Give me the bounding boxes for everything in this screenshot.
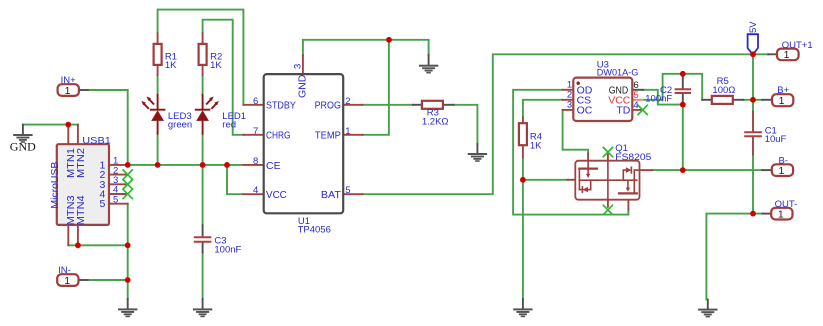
svg-text:USB1: USB1	[82, 136, 111, 147]
ground (bottom right, OUT- net)	[698, 300, 717, 318]
svg-text:1: 1	[779, 95, 785, 107]
wire C1 bottom crossing B- to OUT-	[752, 155, 754, 214]
junction C2 net / B- rail	[680, 167, 686, 173]
transistor Q1 FS8205	[568, 143, 652, 209]
wire 5V net row to CE pin	[128, 164, 244, 166]
wire R3 right to ground	[454, 105, 478, 144]
ground (bottom, USB column)	[118, 299, 137, 317]
junction MTN1/GND	[65, 122, 71, 128]
wire U3 GND pin to C2 bottom	[643, 90, 683, 105]
connector OUT-	[762, 199, 797, 221]
wire IN- row	[88, 279, 128, 281]
resistor R2	[199, 33, 223, 75]
resistor R1	[154, 33, 178, 75]
ground (right of R3)	[468, 144, 487, 162]
no-connect X on U3 TD pin	[638, 105, 647, 114]
wire U1 GND pin to top ground	[303, 40, 429, 55]
wire C3 bottom to ground	[202, 252, 204, 299]
svg-text:VCC: VCC	[266, 189, 287, 201]
resistor R3	[413, 101, 454, 128]
svg-text:2: 2	[345, 96, 350, 107]
svg-text:MTN2: MTN2	[75, 148, 87, 178]
IC U3 DW01A-G	[563, 60, 643, 121]
svg-text:1: 1	[784, 49, 790, 61]
wire LED1 cathode to 5V row	[202, 135, 204, 165]
svg-text:GND: GND	[297, 74, 309, 98]
junction OUT+ / 5V flag	[750, 51, 756, 57]
svg-text:FS8205: FS8205	[615, 152, 651, 163]
svg-text:5V: 5V	[748, 21, 759, 33]
svg-text:100Ω: 100Ω	[712, 85, 735, 96]
wire PROG to R3	[363, 104, 413, 106]
svg-text:5: 5	[113, 194, 118, 205]
svg-text:TP4056: TP4056	[298, 225, 331, 236]
ground (bottom, C3 column)	[193, 299, 212, 317]
svg-text:TD: TD	[616, 105, 630, 117]
svg-text:1: 1	[64, 275, 70, 287]
junction LED1-C3 / 5V row	[200, 162, 206, 168]
svg-text:1: 1	[65, 85, 71, 97]
wire VCC jog from 5V row to U1 VCC	[227, 165, 243, 194]
svg-text:CE: CE	[266, 160, 281, 172]
IC U1 TP4056	[243, 55, 362, 235]
svg-text:green: green	[168, 119, 192, 130]
wire R1 top to U1 STDBY	[158, 10, 244, 105]
svg-text:1K: 1K	[210, 60, 222, 71]
wire BAT to OUT+/5V rail	[363, 54, 769, 194]
wire R1 bottom to LED3 anode	[157, 75, 159, 94]
capacitor C1	[744, 112, 786, 155]
resistor R5	[702, 76, 743, 104]
svg-text:MTN4: MTN4	[75, 195, 87, 225]
svg-text:100nF: 100nF	[214, 245, 241, 256]
wire C2 bottom down to B- rail	[682, 105, 684, 171]
connector IN+	[58, 75, 88, 97]
wire USB pin5 to ground column	[127, 204, 129, 299]
no-connect X on Q1 top pin	[603, 147, 612, 156]
svg-text:1.2KΩ: 1.2KΩ	[422, 117, 449, 128]
wire B+ to C1 top	[752, 100, 754, 112]
capacitor C2	[645, 74, 691, 105]
junction LED3 / 5V row	[155, 162, 161, 168]
wire OC to Q1 top-left pin	[563, 110, 589, 153]
junction OUT- node	[750, 211, 756, 217]
svg-text:10uF: 10uF	[765, 134, 787, 145]
junction C2 bottom / GND net	[680, 102, 686, 108]
junction C2 top / VCC net	[680, 71, 686, 77]
wire OD net to Q1 gate pin	[513, 90, 628, 215]
wire R2 top to U1 CHRG	[203, 20, 244, 135]
junction USB pin1 / 5V row	[125, 162, 131, 168]
ground (bottom, R4 column)	[513, 299, 532, 317]
ground flag GND (left)	[10, 125, 36, 154]
wire 5V row down to C3 top	[202, 165, 204, 225]
wire R4 bottom node	[523, 158, 568, 180]
svg-text:1: 1	[345, 126, 350, 137]
power flag 5V	[748, 21, 759, 55]
wire B+ row R5 to pin	[743, 99, 762, 101]
junction MTN4/GND	[75, 242, 81, 248]
capacitor C3	[194, 225, 242, 255]
wire IN+ to USB pin1 column	[88, 90, 128, 165]
no-connect X on USB pin4	[123, 189, 132, 198]
svg-text:100nF: 100nF	[645, 94, 672, 105]
svg-text:3: 3	[292, 64, 303, 69]
wire U3 VCC pin up to C2 top and R5	[643, 74, 702, 100]
svg-text:CHRG: CHRG	[266, 130, 291, 142]
junction R4-Q1 / GND column	[520, 177, 526, 183]
connector IN-	[57, 265, 87, 287]
LED LED1 red	[195, 94, 246, 135]
connector B+	[762, 85, 793, 107]
svg-text:4: 4	[253, 185, 258, 196]
svg-text:GND: GND	[10, 140, 36, 154]
svg-text:1: 1	[778, 165, 784, 177]
wire OUT- row and ground drop	[706, 214, 762, 300]
no-connect X on Q1 bottom pin	[603, 205, 612, 214]
svg-text:STDBY: STDBY	[266, 100, 296, 112]
junction GND column / MTN row	[125, 242, 131, 248]
wire right rail OUT+ to B+	[752, 54, 754, 100]
wire GND flag to USB MTN top pins	[23, 124, 78, 126]
svg-text:red: red	[222, 119, 236, 130]
svg-text:3: 3	[567, 100, 572, 111]
junction IN- / GND column	[125, 277, 131, 283]
connector B-	[762, 155, 793, 177]
svg-text:DW01A-G: DW01A-G	[597, 67, 639, 78]
svg-text:1K: 1K	[530, 140, 542, 151]
resistor R4	[519, 118, 542, 158]
wire MTN bottom pins row	[68, 244, 127, 246]
svg-text:7: 7	[253, 126, 258, 137]
no-connect X on USB pin3	[123, 180, 132, 189]
svg-text:OC: OC	[577, 105, 593, 117]
svg-text:PROG: PROG	[315, 100, 341, 112]
junction B+ / R5	[750, 97, 756, 103]
no-connect X on USB pin2	[123, 170, 132, 179]
svg-text:5: 5	[99, 198, 105, 210]
svg-text:8: 8	[253, 156, 258, 167]
wire LED3 cathode to 5V row	[157, 135, 159, 165]
svg-text:5: 5	[345, 185, 350, 196]
svg-text:6: 6	[253, 96, 258, 107]
ground (top middle)	[419, 55, 438, 74]
wire B- rail from Q1 to B- pin	[652, 169, 763, 171]
svg-text:1K: 1K	[165, 60, 177, 71]
svg-text:BAT: BAT	[321, 189, 342, 201]
wire R2 bottom to LED1 anode	[202, 75, 204, 94]
wire TEMP to GND net	[363, 40, 389, 135]
junction VCC jog / 5V row	[224, 162, 230, 168]
LED LED3 green	[141, 94, 192, 135]
junction TEMP / GND wire	[386, 37, 392, 43]
wire R4 node down to ground	[522, 180, 524, 299]
connector USB1 MicroUSB	[49, 125, 128, 246]
svg-text:1: 1	[778, 209, 784, 221]
connector OUT+1	[768, 40, 812, 61]
wire CS to R4 top	[523, 100, 563, 118]
svg-text:TEMP: TEMP	[315, 130, 341, 142]
svg-text:MicroUSB: MicroUSB	[49, 162, 61, 209]
